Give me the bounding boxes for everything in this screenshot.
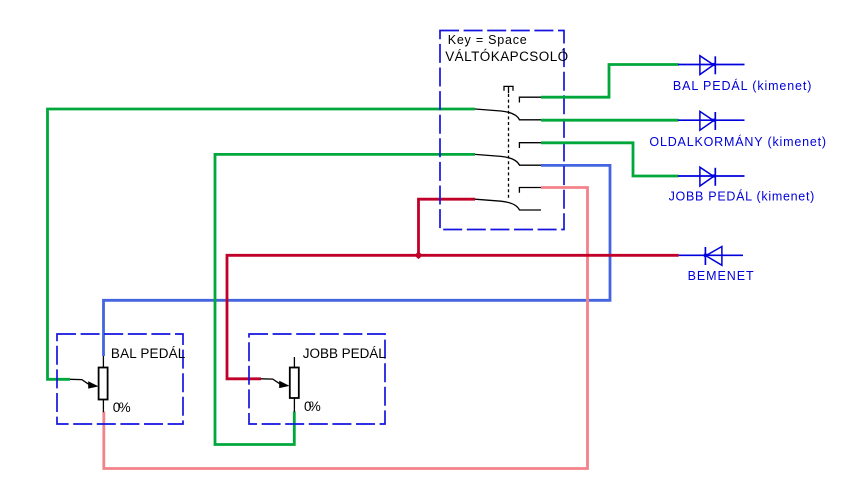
potentiometer P2 top terminal (293, 357, 295, 368)
diode D2 apex dot (712, 119, 716, 122)
wire green G1 (switch1 pole to BAL pot wiper) (48, 109, 476, 379)
svg-text:Key = Space: Key = Space (448, 33, 527, 47)
svg-text:VÁLTÓKAPCSOLÓ: VÁLTÓKAPCSOLÓ (445, 49, 568, 64)
switch S2 upper throw contact (519, 143, 541, 148)
diode D4 apex dot (704, 254, 708, 257)
switch S2 lever (475, 154, 541, 165)
potentiometer P1 body (99, 368, 108, 400)
potentiometer P2 wiper arm (261, 379, 281, 385)
wire blue (switch2 lower throw to BAL pot top) (104, 165, 611, 356)
diode D4 triangle (points left) (706, 247, 722, 266)
diode D2 line (OLDALKORMANY kimenet) (678, 119, 745, 121)
diode D2 triangle (700, 111, 714, 130)
diode D4 line (BEMENET input) (679, 254, 743, 256)
potentiometer P2 wiper arrowhead (279, 381, 289, 388)
switch S3 lever (475, 199, 541, 210)
wire green (switch1 lower throw to OLDALKORMANY diode) (541, 119, 679, 122)
diode D1 apex dot (712, 63, 716, 66)
diode D3 cathode bar (714, 168, 716, 186)
diode D3 apex dot (712, 174, 716, 177)
switch linkage dashed line (508, 94, 510, 199)
switch S3 upper throw contact (519, 188, 541, 193)
svg-text:BEMENET: BEMENET (688, 269, 754, 283)
diode D1 cathode bar (714, 56, 716, 74)
switch box (dashed) (440, 31, 564, 230)
junction dot on dark-red net (414, 252, 423, 260)
wire green (switch1 upper throw to BAL PEDAL kimenet diode) (541, 65, 679, 98)
diode D3 triangle (700, 167, 714, 186)
potentiometer P1 bottom terminal (102, 400, 104, 413)
potentiometer P2 body (290, 368, 299, 399)
diode D1 line (BAL PEDAL kimenet) (678, 64, 745, 66)
potentiometer P1 wiper arrowhead (88, 381, 98, 388)
svg-text:JOBB PEDÁL: JOBB PEDÁL (303, 346, 386, 361)
wire green (switch2 upper throw to JOBB PEDAL kimenet diode) (541, 143, 679, 176)
diode D3 line (JOBB PEDAL kimenet) (678, 175, 745, 177)
BAL PEDAL box (dashed) (57, 334, 183, 424)
switch linkage T handle (504, 86, 513, 93)
svg-text:OLDALKORMÁNY (kimenet): OLDALKORMÁNY (kimenet) (649, 134, 826, 149)
svg-text:0%: 0% (113, 400, 131, 415)
diode D2 cathode bar (714, 112, 716, 130)
potentiometer P1 wiper arm (70, 379, 90, 385)
potentiometer P2 bottom terminal (293, 398, 295, 412)
wire pink (switch3 upper throw to BAL pot bottom) (104, 188, 588, 469)
switch S1 lever (475, 109, 541, 120)
wire green G2 (switch2 pole to JOBB pot bottom) (215, 154, 475, 444)
JOBB PEDAL box (dashed) (249, 334, 385, 424)
wire dark-red branch (junction up to switch3 pole) (419, 199, 476, 255)
svg-text:0%: 0% (304, 399, 321, 414)
svg-text:BAL PEDÁL: BAL PEDÁL (111, 346, 186, 361)
svg-text:JOBB PEDÁL (kimenet): JOBB PEDÁL (kimenet) (669, 188, 815, 203)
switch S1 upper throw contact (519, 97, 541, 102)
diode D1 triangle (700, 56, 714, 75)
wire dark-red main (BEMENET diode to JOBB pot wiper) (227, 255, 679, 378)
svg-text:BAL PEDÁL (kimenet): BAL PEDÁL (kimenet) (673, 78, 812, 93)
potentiometer P1 top terminal (102, 356, 104, 368)
diode D4 cathode bar (704, 247, 706, 265)
